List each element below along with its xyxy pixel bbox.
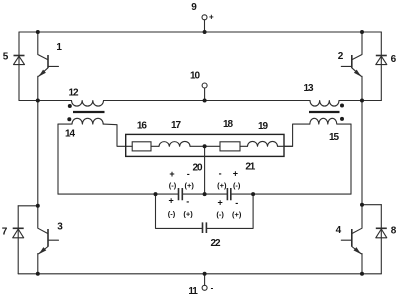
box around snubber network 16-19	[126, 134, 284, 156]
polarity dot coil 14	[67, 117, 71, 121]
wire: right diode column upper (node of diode 6)	[380, 32, 382, 101]
svg-text:+: +	[209, 13, 214, 22]
svg-text:(+): (+)	[232, 210, 242, 219]
wire: 19 to box right edge	[278, 145, 293, 147]
junction: node 9 tap / top rail	[203, 30, 207, 34]
svg-text:(+): (+)	[183, 209, 193, 218]
svg-text:-: -	[219, 169, 222, 179]
junction: T2 collector / top rail	[360, 30, 364, 34]
wire: lower-mid stub left (diode 7 top tie)	[18, 205, 38, 207]
svg-text:15: 15	[329, 132, 339, 143]
svg-text:3: 3	[57, 222, 63, 233]
svg-text:10: 10	[190, 71, 200, 82]
junction: right column / lower stub	[360, 203, 364, 207]
svg-text:+: +	[169, 169, 174, 179]
svg-text:+: +	[217, 198, 222, 208]
inductor 14 (secondary left, humps above line)	[58, 118, 103, 124]
svg-text:20: 20	[193, 163, 203, 174]
wire: bottom rail (- bus)	[18, 273, 381, 275]
svg-text:19: 19	[258, 121, 268, 132]
transformer core left	[73, 111, 105, 113]
junction: left column / mid rail	[36, 99, 40, 103]
svg-text:(-): (-)	[216, 210, 224, 219]
diode 7	[13, 228, 24, 238]
wire: coil 14 left end down to capacitor line	[57, 124, 59, 194]
junction: cap line left	[154, 192, 158, 196]
transistor 2	[341, 32, 362, 101]
transformer core right	[309, 111, 340, 113]
svg-text:12: 12	[69, 87, 79, 98]
svg-text:13: 13	[304, 83, 314, 94]
wire: mid rail center segment	[104, 100, 311, 102]
svg-text:(-): (-)	[168, 209, 176, 218]
svg-text:17: 17	[171, 120, 181, 131]
transistor 1	[38, 32, 59, 101]
terminal node 9	[202, 15, 207, 32]
svg-text:(-): (-)	[233, 181, 241, 190]
junction: right column / bottom rail	[360, 272, 364, 276]
svg-text:16: 16	[137, 121, 147, 132]
polarity dot coil 15	[340, 117, 344, 121]
wire: left diode column upper (node of diode 5)	[18, 32, 20, 101]
junction: left column / lower stub	[36, 204, 40, 208]
resistor 16	[132, 142, 151, 151]
wire: capacitor line between 20 and 21	[182, 193, 227, 195]
wire: mid rail left segment	[19, 100, 72, 102]
junction: cap line center	[203, 192, 207, 196]
svg-text:8: 8	[391, 225, 397, 236]
inductor 17	[159, 141, 190, 146]
svg-text:-: -	[186, 197, 189, 207]
svg-text:-: -	[211, 283, 214, 292]
wire: mid rail right segment	[339, 100, 381, 102]
junction: node 11 tap / bottom rail	[203, 272, 207, 276]
inductor 19	[248, 141, 278, 146]
wire: lower capacitor loop right	[206, 194, 253, 228]
polarity marks below capacitor 20	[168, 196, 194, 219]
wire: 18 to 19	[240, 145, 248, 147]
wire: top rail (+ bus)	[19, 31, 381, 33]
wire: 16 to 17	[151, 145, 159, 147]
svg-text:4: 4	[336, 225, 342, 236]
wire: right diode column lower (node of diode 8)	[380, 205, 382, 274]
terminal node 10	[202, 83, 207, 101]
svg-text:7: 7	[2, 227, 8, 238]
wire: right inner column between mid rail and lower stub	[361, 101, 363, 205]
wire: coil 15 left end jog into box	[284, 124, 310, 146]
svg-text:5: 5	[3, 52, 9, 63]
capacitor 20	[179, 188, 183, 200]
wire: lower capacitor loop left	[156, 194, 203, 228]
resistor 18	[220, 142, 240, 151]
svg-text:6: 6	[391, 54, 397, 65]
svg-text:-: -	[187, 169, 190, 179]
wire: lower-mid stub right (diode 8 top tie)	[362, 204, 381, 206]
wire: left diode column lower (node of diode 7)	[17, 206, 19, 274]
polarity marks below capacitor 21	[216, 198, 242, 219]
diode 8	[376, 228, 387, 238]
diode 5	[14, 56, 25, 65]
polarity dot coil 12	[68, 104, 72, 108]
transistor 3	[38, 206, 59, 274]
svg-text:22: 22	[211, 238, 221, 249]
svg-text:+: +	[168, 196, 173, 206]
wire: capacitor line right segment	[231, 193, 351, 195]
svg-text:-: -	[235, 198, 238, 208]
inductor 15 (secondary right, humps above line)	[310, 118, 351, 124]
svg-text:(-): (-)	[169, 181, 177, 190]
wire: left inner column between mid rail and lower stub	[37, 101, 39, 206]
wire: capacitor line left segment	[58, 193, 179, 195]
terminal node 11	[202, 274, 207, 291]
junction: node 10 tap / mid rail	[203, 99, 207, 103]
capacitor 22	[203, 222, 207, 233]
svg-text:18: 18	[223, 119, 233, 130]
svg-text:(+): (+)	[185, 181, 195, 190]
polarity marks above capacitor 20	[169, 169, 195, 190]
wire: coil 15 right end down to capacitor line	[350, 124, 352, 194]
polarity marks above capacitor 21	[217, 168, 241, 190]
inductor 12 (primary left, humps below line)	[72, 101, 104, 107]
svg-text:2: 2	[338, 51, 344, 62]
wire: 17 to center node to 18	[190, 145, 220, 147]
svg-text:(+): (+)	[217, 181, 227, 190]
svg-text:+: +	[233, 168, 238, 178]
wire: center vertical from box node to capacitor line	[204, 146, 206, 194]
polarity dot coil 13	[340, 104, 344, 108]
svg-text:14: 14	[65, 129, 75, 140]
junction: cap line right	[251, 192, 255, 196]
junction: center node in box	[203, 144, 207, 148]
diode 6	[376, 56, 387, 65]
junction: T1 collector / top rail	[36, 30, 40, 34]
inductor 13 (primary right, humps below line)	[310, 101, 339, 107]
svg-text:1: 1	[56, 42, 62, 53]
wire: coil 14 right end jog into box	[103, 124, 132, 146]
svg-text:21: 21	[245, 162, 255, 173]
svg-text:9: 9	[191, 2, 197, 13]
capacitor 21	[227, 188, 230, 200]
transistor 4	[341, 205, 362, 274]
junction: right column / mid rail	[360, 99, 364, 103]
junction: left column / bottom rail	[36, 272, 40, 276]
